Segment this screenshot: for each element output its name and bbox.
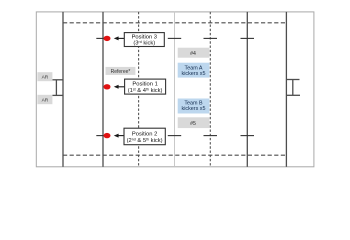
svg-text:AR: AR [42, 75, 49, 81]
row-3 tick over kick line [96, 135, 110, 137]
svg-text:#4: #4 [190, 51, 196, 57]
#5 box [178, 117, 210, 128]
far 22m line [246, 12, 248, 167]
svg-text:kickers x5: kickers x5 [182, 106, 206, 112]
svg-text:Referee*: Referee* [111, 69, 131, 75]
far 10m line (dashed) [209, 12, 211, 167]
svg-text:AR: AR [42, 98, 49, 104]
svg-text:kickers x5: kickers x5 [182, 71, 206, 77]
row-1 tick over kick line [96, 37, 110, 39]
AR box top [37, 72, 52, 81]
AR box bottom [37, 95, 52, 104]
row-3 tick over far 22m line [241, 135, 255, 137]
Position 3 label box [124, 33, 164, 47]
right goal line [285, 12, 287, 167]
kick spot Position 3 (red dot) [104, 36, 111, 41]
Position 1 label box [125, 79, 166, 94]
svg-text:#5: #5 [190, 121, 196, 127]
Referee box [106, 67, 136, 75]
near 22m line (kick line) [102, 12, 104, 167]
row-3 tick over halfway line [168, 135, 181, 137]
halfway line [174, 12, 176, 167]
row-1 tick over far 22m line [241, 37, 255, 39]
pitch boundary (touchlines and dead-ball lines) [36, 12, 314, 167]
row-1 tick over far 10m line [204, 37, 218, 39]
arrow to Position 3 label [114, 36, 125, 40]
left goal posts [52, 80, 63, 96]
Position 2 label box [124, 128, 165, 145]
kick spot Position 2 (red dot) [104, 133, 111, 138]
Team B kickers box [178, 99, 210, 114]
Team A kickers box [178, 63, 210, 78]
kick spot Position 1 (red dot) [104, 84, 111, 89]
near 10m line (dashed) [138, 12, 140, 167]
arrow to Position 2 label [114, 134, 124, 138]
left goal line [62, 12, 64, 167]
bottom 5m line (dashed) [63, 154, 286, 156]
right goal posts [286, 80, 300, 96]
top 5m line (dashed) [63, 22, 286, 24]
row-3 tick over far 10m line [204, 135, 218, 137]
arrow to Position 1 label [114, 85, 125, 89]
svg-text:Position 3: Position 3 [132, 35, 157, 41]
svg-text:(3rd kick): (3rd kick) [133, 40, 155, 47]
row-1 tick over halfway line [168, 37, 181, 39]
#4 box [178, 48, 210, 58]
